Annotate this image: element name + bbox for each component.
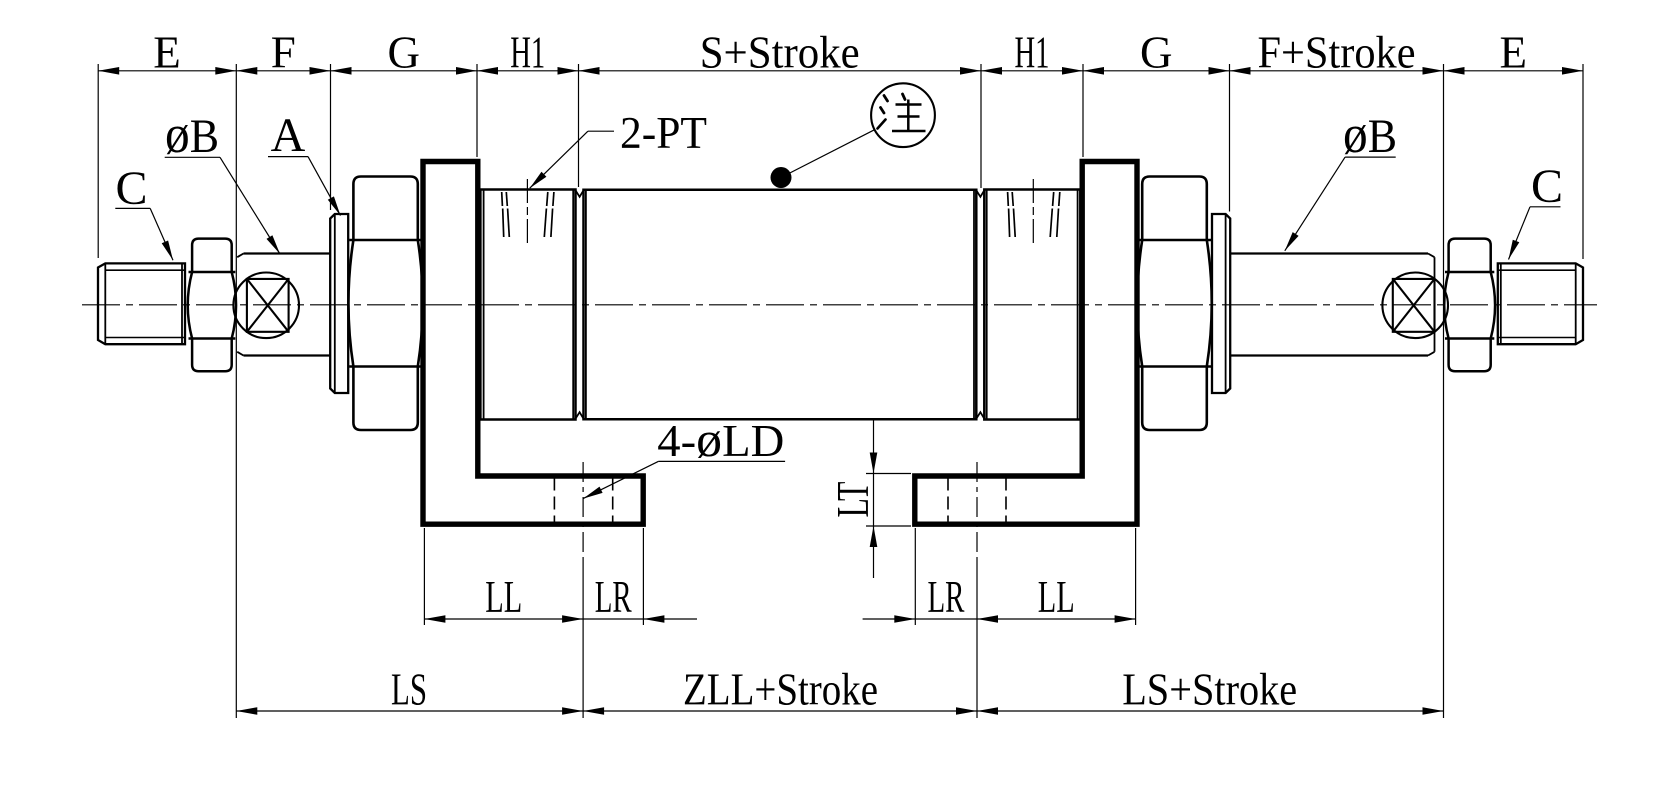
piston rod oB (right)	[1230, 252, 1428, 254]
hex rod nut (left)	[188, 239, 236, 372]
cylinder head (left)	[480, 190, 575, 420]
main horizontal centerline	[82, 304, 1597, 306]
piston rod oB (left)	[244, 252, 331, 254]
svg-text:LR: LR	[595, 572, 632, 622]
port thread 2-PT (left head)	[526, 179, 528, 246]
svg-text:4-øLD: 4-øLD	[657, 411, 784, 467]
svg-text:LL: LL	[1038, 572, 1075, 622]
svg-text:F+Stroke: F+Stroke	[1258, 28, 1416, 78]
hex rod nut (right)	[1444, 239, 1495, 372]
foot mounting bracket L-plate (right)	[915, 162, 1137, 525]
rod-guide hex nut (left)	[348, 177, 422, 431]
thread minor-diameter lines (left rod end)	[105, 269, 185, 271]
svg-text:LT: LT	[828, 482, 878, 518]
mounting hole 4-oLD hidden lines (right foot)	[947, 478, 949, 523]
svg-text:LL: LL	[485, 572, 522, 622]
svg-text:E: E	[1499, 28, 1527, 78]
arrowheads of top dimension line	[98, 67, 119, 75]
svg-text:C: C	[1531, 160, 1563, 213]
svg-text:2-PT: 2-PT	[620, 108, 707, 158]
rod-guide hex nut (right)	[1137, 177, 1211, 431]
note balloon circle	[871, 83, 935, 147]
svg-text:ZLL+Stroke: ZLL+Stroke	[683, 665, 878, 715]
svg-text:LR: LR	[928, 572, 965, 622]
threaded rod end C (right)	[1498, 263, 1583, 344]
threaded rod end C (left)	[98, 263, 185, 344]
note leader line	[781, 130, 875, 178]
svg-text:F: F	[271, 28, 296, 78]
flange washer A (left)	[330, 214, 348, 393]
LT dimension (right foot plate thickness)	[873, 419, 875, 473]
LR-LL dimension line (right foot)	[863, 618, 1136, 620]
svg-text:G: G	[1140, 28, 1173, 78]
note leader dot on tube	[771, 167, 792, 188]
head-tube junction V-notch (right)	[976, 190, 984, 197]
svg-text:LS+Stroke: LS+Stroke	[1122, 665, 1297, 715]
mounting hole centerline (right foot)	[976, 462, 978, 560]
cylinder head (right)	[984, 190, 1080, 420]
svg-text:øB: øB	[1343, 104, 1397, 164]
LS / ZLL+Stroke / LS+Stroke dimension line	[236, 710, 1443, 712]
thread minor-diameter lines (right rod end)	[1498, 269, 1576, 271]
wrench-flat square with cross (left)	[247, 279, 289, 332]
svg-text:H1: H1	[510, 28, 545, 78]
head-tube junction V-notch (left)	[576, 190, 584, 197]
svg-text:G: G	[387, 28, 420, 78]
svg-text:H1: H1	[1015, 28, 1050, 78]
svg-text:øB: øB	[165, 104, 219, 164]
svg-text:LS: LS	[391, 665, 427, 715]
mounting hole 4-oLD hidden lines (left foot)	[553, 478, 555, 523]
svg-text:S+Stroke: S+Stroke	[700, 28, 860, 78]
wrench-flat square with cross (right)	[1393, 279, 1435, 332]
wrench-flat circle (left)	[233, 273, 299, 339]
mounting hole centerline (left foot)	[582, 462, 584, 560]
port thread 2-PT (right head)	[1032, 179, 1034, 246]
svg-text:E: E	[153, 28, 181, 78]
cylinder tube body S	[584, 190, 977, 419]
svg-text:A: A	[271, 109, 306, 162]
foot mounting bracket L-plate (left)	[423, 162, 643, 525]
extension lines for top and overall dimensions	[97, 64, 99, 258]
Chinese character zhu (note) drawn as strokes	[884, 96, 888, 102]
wrench-flat circle (right)	[1382, 273, 1448, 339]
collar washer (right)	[1212, 214, 1230, 393]
svg-text:C: C	[115, 162, 147, 215]
top dimension line E-F-G-H1-S+Stroke-H1-G-F+Stroke-E	[98, 70, 1583, 72]
LL-LR dimension line (left foot)	[424, 618, 697, 620]
